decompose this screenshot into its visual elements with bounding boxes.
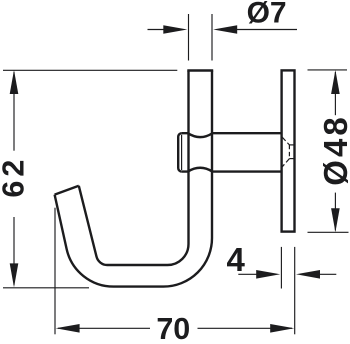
svg-text:4: 4 (227, 241, 246, 278)
svg-text:Ø48: Ø48 (317, 114, 350, 185)
svg-text:70: 70 (156, 312, 190, 344)
svg-text:Ø7: Ø7 (247, 0, 287, 30)
svg-text:62: 62 (0, 156, 30, 198)
